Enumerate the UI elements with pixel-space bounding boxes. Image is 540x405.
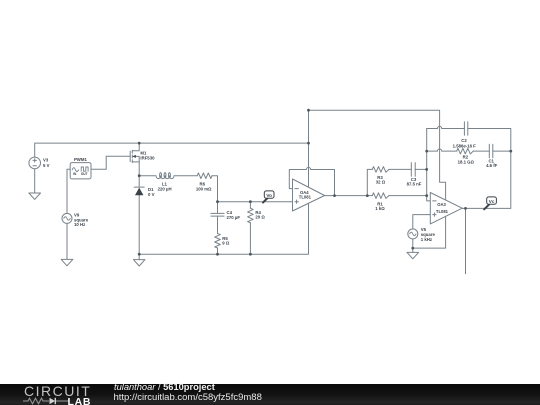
svg-text:5 V: 5 V [43,163,50,168]
wire OA3 minus node vertical [427,129,431,201]
wire node to L1 [139,175,156,177]
CircuitLab logo wordmark [24,383,91,399]
wire V5 bottom [412,239,414,248]
node output riser top [509,150,512,153]
wire R2 row left with hop [427,149,457,151]
wire C2 row left with hop [427,126,465,128]
probe Vc [484,197,496,209]
wire V3 bottom to ground [34,169,36,194]
node 5V riser [307,142,310,145]
probe Vo [263,191,274,203]
wire R4 top lead [249,202,251,209]
inductor L1 [156,173,174,192]
capacitor C2 [453,122,477,149]
node source/D1/L1 [138,174,141,177]
logo zigzag diode glyph [23,397,69,405]
wire C2 row right [468,129,511,152]
voltage source V5 [408,227,436,242]
resistor R1 [372,193,389,211]
svg-text:IRF530: IRF530 [140,156,155,161]
wire R2 to C1 [473,150,489,152]
node OA3 output [464,207,467,210]
wire 5V riser, top rail, OA3 V+ branch [309,110,446,200]
svg-text:Vo: Vo [266,193,272,198]
wire R1 to minus node [389,195,427,197]
wire C1 right [493,150,511,152]
svg-text:Vc: Vc [489,199,495,204]
node minus C3 row [425,168,428,171]
wire L1 to R6 [174,175,197,177]
svg-text:TL081: TL081 [299,195,312,200]
svg-text:4.6 fF: 4.6 fF [486,163,498,168]
op-amp OA3 [430,193,462,224]
wire R1 left lead [367,195,372,197]
node OA4 feedback output [333,194,336,197]
wire C3 to minus node [415,168,427,170]
capacitor C1 [486,144,498,168]
svg-text:1 kHz: 1 kHz [421,237,432,242]
node minus C2 row [425,150,428,153]
resistor R6 [196,173,212,191]
voltage source V9 [62,213,89,228]
svg-text:TL081: TL081 [436,209,449,214]
footer bar [0,384,540,405]
node drain/rail [138,142,141,145]
wire R5 to bottom rail [217,248,219,254]
wire PWM IN to V9 [67,169,70,213]
svg-text:1.586e-16 F: 1.586e-16 F [453,143,477,148]
wire V5 node to OA3 V- [413,216,446,248]
wire MOSFET source to L1/D1 node [138,162,140,176]
wire V5 ground stub [412,248,414,252]
footer url [114,392,262,403]
ground (main rail) [133,260,145,266]
wire ground stub main rail [138,254,140,259]
node R3 R1 split [366,194,369,197]
wire D1 anode to bottom rail [138,195,140,254]
svg-text:V3: V3 [43,157,49,162]
wire R4 bottom lead [249,223,251,255]
wire R6 to C4 node [212,176,218,202]
resistor R5 [215,233,230,248]
svg-text:9 Ω: 9 Ω [222,241,230,246]
wire output to R3 branch [367,169,372,195]
wire OA4 V+ stub [308,143,310,187]
transistor M1 [130,143,155,163]
wire C4 top lead [217,202,219,214]
svg-text:M1: M1 [140,150,147,155]
wire node row to OA4 plus input [218,201,293,203]
wire OA3 output to right riser [462,151,511,208]
resistor R3 [372,167,389,185]
wire R3 to C3 [389,168,411,170]
wire OA4 output [325,195,368,197]
node minus R1 row [425,194,428,197]
op-amp OA4 [293,179,325,211]
svg-text:1 kΩ: 1 kΩ [375,206,385,211]
node top rail corner [307,109,310,112]
ground (V9) [61,259,73,265]
voltage source V3 [29,157,50,169]
svg-text:OA3: OA3 [437,202,446,207]
node V5 ground [411,247,414,250]
svg-text:18.1 GΩ: 18.1 GΩ [458,160,475,165]
node R4 bottom [249,253,252,256]
svg-text:100 mΩ: 100 mΩ [196,186,212,191]
ground (V5) [407,252,419,258]
wire V5 to OA3 plus input [413,215,431,229]
resistor R2 [457,148,475,164]
svg-text:10 Hz: 10 Hz [74,222,85,227]
wire C4 to R5 [217,216,219,233]
wire PWM OUT to gate [91,156,130,169]
svg-text:20 Ω: 20 Ω [255,215,265,220]
wire OA4 feedback loop [289,167,334,195]
svg-text:220 µH: 220 µH [158,186,172,191]
node D1 rail ground [138,253,141,256]
svg-text:PWM1: PWM1 [74,157,88,162]
footer title [114,382,215,392]
wire dangling below OA3 output [465,208,467,273]
diode D1 [134,187,154,197]
ground (V3) [29,193,41,199]
svg-text:OUT: OUT [81,172,88,176]
node R4 top [249,200,252,203]
svg-text:87.5 nF: 87.5 nF [407,182,422,187]
wire node to D1 [138,176,140,187]
capacitor C4 [211,210,240,220]
node R5 bottom [216,253,219,256]
capacitor C3 [407,163,422,187]
svg-text:32 Ω: 32 Ω [376,180,386,185]
resistor R4 [248,208,266,222]
svg-text:270 µF: 270 µF [227,215,241,220]
wire V3 top to MOSFET drain [35,143,140,157]
svg-text:0 V: 0 V [148,192,155,197]
wire V9 bottom to ground [66,223,68,259]
node C4 top [216,200,219,203]
wire bottom rail to OA4 V- [139,203,308,254]
wire drain junction to 5V riser [139,142,308,144]
PWM block PWM1 [70,157,91,179]
